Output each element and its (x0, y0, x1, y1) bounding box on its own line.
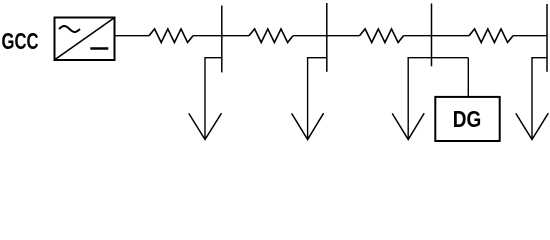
resistor R2 (249, 29, 293, 43)
resistor R1 (149, 29, 193, 43)
distributed generator DG (435, 97, 499, 141)
load arrow 3 (392, 113, 424, 139)
wire: node 3 to DG (467, 58, 469, 97)
wire: load feeder 3 vertical (407, 58, 409, 139)
svg-text:DG: DG (453, 106, 482, 132)
wire: R3 to node 3 (404, 35, 432, 37)
wire: node 4 drop to load feeder 4 (532, 58, 547, 139)
wire: node 1 drop to load feeder 1 (205, 58, 222, 139)
node 3 (bus tap bar) (431, 4, 433, 67)
node 2 (bus tap bar) (326, 3, 328, 72)
wire: R4 to node 4 (513, 35, 547, 37)
resistor R4 (469, 29, 513, 43)
wire: GCC output to R1 (115, 35, 150, 37)
wire: node 3 to R4 (432, 35, 470, 37)
node 1 (bus tap bar) (221, 6, 223, 73)
svg-text:GCC: GCC (2, 28, 39, 54)
load arrow 4 (516, 113, 549, 139)
converter U1 (GCC AC/DC converter) (55, 18, 115, 61)
wire: node 1 to R2 (222, 35, 249, 37)
wire: R1 to node 1 (193, 35, 222, 37)
wire: node 2 to R3 (327, 35, 360, 37)
load arrow 1 (189, 113, 222, 139)
resistor R3 (360, 29, 404, 43)
load arrow 2 (292, 113, 324, 139)
wire: node 3 drop (horizontal jog) (408, 57, 469, 59)
wire: R2 to node 2 (293, 35, 327, 37)
node 4 (bus tap bar) (546, 4, 548, 72)
wire: node 2 drop to load feeder 2 (308, 58, 327, 139)
